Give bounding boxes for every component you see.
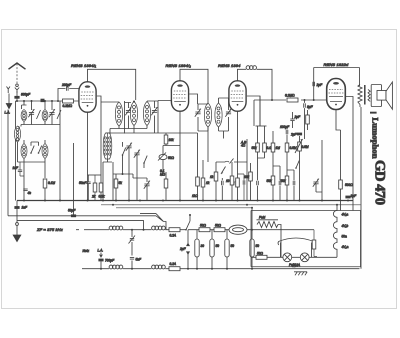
resistor 50 skala (251, 251, 268, 259)
resistor 10k osc (192, 133, 199, 201)
heater chain winding (333, 205, 337, 258)
capacitor 4nF (23, 189, 31, 195)
ground symbol (13, 201, 21, 242)
trimmer C9 (144, 181, 150, 189)
node L.A. 2 (98, 249, 104, 258)
coil L5 (42, 144, 48, 159)
svg-text:RENS 1894/₂: RENS 1894/₂ (166, 63, 192, 68)
wire (44, 162, 46, 178)
wire (316, 184, 322, 192)
cathode network V1 (88, 174, 102, 176)
switch S2b (143, 156, 147, 164)
coil IF2b (215, 103, 222, 127)
wire (202, 160, 204, 201)
power box top (251, 211, 361, 267)
switch S2a (122, 148, 126, 156)
wire (59, 101, 61, 201)
wire antenna lead-in dashed (16, 64, 18, 84)
wire (23, 162, 25, 201)
resistor 50a (199, 224, 210, 232)
wire V1 plate to filter (97, 96, 119, 130)
resistor 500ohm (339, 130, 354, 211)
svg-text:50Ω: 50Ω (168, 156, 175, 160)
wire (211, 230, 213, 269)
svg-text:Feld: Feld (259, 216, 265, 220)
wire (17, 130, 19, 133)
wire (189, 215, 191, 221)
wire filter1 tops (125, 101, 159, 108)
coil L4 (21, 144, 27, 159)
svg-text:2k: 2k (91, 195, 96, 199)
capacitor 50nF (79, 175, 91, 201)
wire V4 plate (346, 97, 353, 211)
wire (215, 162, 217, 172)
svg-text:0.1M: 0.1M (48, 181, 55, 185)
tube V3 RENS 1894 (229, 81, 246, 111)
trimmer C7 (126, 143, 132, 151)
capacitor 700pF (98, 259, 115, 269)
junction (271, 99, 273, 101)
heater resistor tube c (225, 239, 234, 257)
svg-text:50nF: 50nF (79, 181, 87, 185)
wire frame left (15, 101, 17, 201)
heater resistor tube d (250, 239, 259, 257)
dial frame posts (281, 243, 312, 258)
feedthrough cap (122, 173, 124, 175)
trimmer C5 (125, 107, 131, 115)
wire filter1 bottoms (106, 116, 158, 139)
trimmer C2 (49, 109, 55, 117)
loudspeaker (371, 82, 392, 109)
coil mains filter 4 (152, 265, 166, 269)
wire detector line y100 (254, 100, 326, 126)
wire grid to V2 (147, 101, 171, 134)
svg-text:4V₁a: 4V₁a (342, 213, 349, 217)
wire bus E (17, 221, 144, 230)
junction dots bus B (112, 204, 338, 206)
wire (259, 96, 261, 126)
coil mains filter 1 (109, 226, 123, 230)
wire (133, 174, 147, 201)
svg-text:50: 50 (216, 244, 220, 248)
wire osc block (103, 133, 144, 201)
capacitor (273, 166, 281, 201)
svg-text:1k: 1k (206, 181, 210, 185)
capacitor 2uF (313, 82, 323, 87)
svg-text:GD 470: GD 470 (372, 160, 388, 205)
capacitor cathode V3 (238, 174, 245, 201)
coil IF1c (143, 102, 150, 126)
resistor 0.2M (285, 94, 298, 103)
svg-text:0.2k: 0.2k (99, 195, 105, 199)
transformer core (364, 85, 366, 105)
junction dots bus A (23, 200, 323, 202)
junction (131, 229, 133, 231)
coil L1 (21, 110, 27, 122)
wire mid vertical x132 (131, 230, 133, 269)
svg-text:4V₁b: 4V₁b (342, 224, 349, 228)
junction dots on grid line (16, 100, 18, 102)
capacitor 200pF grid (58, 83, 80, 101)
fuse 0.2A (169, 228, 180, 238)
switch arrow 2 (57, 110, 61, 119)
resistor cathode V3 (231, 178, 239, 187)
wire switch column (187, 230, 189, 269)
junction (189, 214, 191, 216)
svg-text:50Ω: 50Ω (200, 224, 207, 228)
wire V1 cathode (87, 113, 89, 201)
svg-text:2µF: 2µF (290, 133, 298, 137)
resistor 1k a (201, 178, 210, 187)
trimmer C6 (151, 107, 157, 115)
capacitor (287, 170, 295, 201)
svg-text:800pF: 800pF (21, 93, 31, 97)
svg-text:50µF: 50µF (68, 209, 76, 213)
potentiometer 0.5M volume (295, 139, 309, 153)
tube V2 RENS 1894/2 (171, 81, 188, 111)
switch arrow (37, 110, 41, 119)
trimmer C11 (225, 109, 231, 117)
capacitor 1nF (13, 162, 25, 176)
wire lamp row (268, 256, 337, 258)
wire bus D (8, 214, 166, 230)
coil mains filter 2 (152, 226, 166, 230)
resistor 50k (244, 163, 252, 201)
switch S3 (225, 159, 234, 164)
transformer secondary (368, 90, 370, 102)
wire (196, 230, 198, 269)
wire top row feed (256, 125, 267, 127)
coil mains filter 3 (109, 265, 123, 269)
svg-text:50k: 50k (267, 179, 273, 183)
wire (21, 101, 27, 125)
wire (115, 174, 117, 201)
wire (73, 143, 75, 216)
wire (163, 144, 180, 176)
svg-text:0.5M: 0.5M (290, 146, 297, 150)
coil OSC double (103, 133, 112, 159)
mains line B bottom (82, 268, 360, 270)
wire V4 grid feed (314, 68, 360, 101)
resistor 0.1M (43, 179, 55, 188)
resistor 1k (210, 172, 218, 181)
wire (51, 101, 53, 125)
wire coil row bottom (21, 125, 60, 127)
svg-text:0.2A: 0.2A (170, 262, 177, 266)
fuse 0.2A b (169, 262, 180, 271)
coil HF choke (246, 66, 256, 70)
junction (100, 268, 102, 270)
switch S1b (38, 146, 42, 154)
wire V3 top with choke (238, 69, 247, 80)
svg-text:50k: 50k (281, 179, 287, 183)
wire (231, 185, 233, 201)
mains line A (76, 229, 186, 231)
resistor 0.2M grid leak (63, 99, 74, 108)
svg-text:2µF: 2µF (350, 194, 358, 198)
tube V4 RENS 1822d (327, 79, 346, 110)
wire V3 cathode (237, 112, 239, 201)
dial scale arc (278, 238, 314, 245)
coil IF1a (115, 102, 122, 126)
svg-text:50Ω: 50Ω (215, 224, 222, 228)
junction (133, 101, 135, 103)
svg-text:L.A.: L.A. (98, 249, 104, 253)
capacitor 5nF a (129, 236, 136, 244)
antenna terminal A2 (16, 84, 19, 87)
capacitor 2uF det (290, 133, 302, 137)
svg-text:10k: 10k (244, 175, 250, 179)
wire bus B (101, 204, 361, 206)
wire coil block interconnect (18, 140, 46, 162)
svg-text:0.5M: 0.5M (302, 145, 309, 149)
heater resistor tube a (195, 239, 204, 257)
svg-text:50: 50 (256, 244, 260, 248)
capacitor padding on line (41, 99, 45, 102)
capacitor 8uF (304, 100, 314, 139)
wire left mains lead (7, 110, 9, 216)
wire (31, 101, 33, 125)
antenna (9, 63, 26, 69)
svg-text:2µF: 2µF (316, 83, 324, 87)
wire V4 cathode (336, 110, 341, 131)
svg-text:10: 10 (226, 179, 230, 183)
potentiometer 50 ohm (158, 153, 175, 161)
wire (44, 101, 46, 125)
AVC arrow (221, 167, 226, 175)
wire heater line y230 (188, 229, 314, 231)
coil L3 antenna tall (14, 126, 20, 142)
trimmer C8 (134, 150, 140, 158)
resistor 2k (91, 175, 97, 201)
wire (278, 225, 281, 258)
antenna terminal A1 (7, 87, 11, 94)
wire (251, 230, 253, 269)
wire output down (360, 105, 361, 269)
wire (299, 136, 301, 201)
capacitor 2uF coupling (290, 112, 301, 128)
junction (251, 229, 253, 231)
terminal bar (370, 112, 377, 114)
resistor 100 (99, 130, 105, 201)
wire right block (321, 140, 323, 201)
junction (143, 229, 145, 231)
svg-text:500Ω: 500Ω (345, 183, 353, 187)
tube V1 RENS 1894/1 (79, 82, 96, 112)
switch mains (185, 221, 190, 231)
svg-text:RENS 1894: RENS 1894 (218, 63, 241, 68)
switch S4 (295, 161, 299, 169)
svg-text:RENS 1894/₁: RENS 1894/₁ (71, 63, 97, 68)
wire antenna column (16, 91, 18, 101)
capacitor 2uF block (179, 244, 189, 255)
svg-text:RENS 1822d: RENS 1822d (324, 62, 349, 67)
trimmer C1 (28, 109, 34, 117)
resistor (258, 126, 274, 158)
svg-text:1M: 1M (276, 146, 281, 150)
capacitor 50uF (68, 209, 76, 218)
wire earth lead with arrow (8, 94, 10, 104)
svg-text:2µF: 2µF (179, 247, 187, 251)
capacitor 100pF (280, 125, 290, 139)
svg-text:2µF: 2µF (294, 115, 302, 119)
junction (304, 99, 306, 101)
svg-text:4V₂a: 4V₂a (342, 245, 349, 249)
svg-text:4n: 4n (28, 191, 32, 195)
transformer T1 primary (358, 85, 362, 105)
wire (251, 208, 253, 230)
wire (246, 139, 248, 201)
svg-text:100pF: 100pF (280, 125, 290, 129)
resistor (285, 139, 297, 158)
chassis ground (294, 272, 307, 276)
resistor 0.1M AF (160, 169, 168, 188)
trimmer C t (313, 179, 319, 187)
svg-text:Netz: Netz (83, 249, 90, 253)
wire V2 plate (189, 94, 197, 104)
wire bus A ground (17, 200, 353, 202)
wire V1 anode top (88, 69, 136, 100)
svg-text:30: 30 (201, 244, 205, 248)
svg-text:0.2A: 0.2A (170, 234, 177, 238)
svg-text:ZF = 375 kHz: ZF = 375 kHz (36, 227, 63, 232)
svg-text:0.2MΩ: 0.2MΩ (63, 104, 73, 108)
wire filter2 (198, 98, 229, 139)
wire V3 plate (247, 96, 260, 126)
junction 2uF (345, 194, 357, 202)
capacitor 1nF (14, 206, 28, 210)
heater resistor tube b (210, 239, 219, 257)
junction (313, 99, 315, 101)
wire (44, 188, 46, 201)
wire (124, 101, 126, 133)
trimmer C10 (195, 109, 201, 117)
coil IF1b (130, 102, 137, 126)
wire (257, 69, 272, 100)
resistor 10k tap (164, 133, 174, 144)
svg-text:200pF: 200pF (61, 83, 72, 87)
svg-text:Pr(b)2A: Pr(b)2A (289, 263, 300, 267)
svg-text:1k: 1k (210, 175, 214, 179)
wire (207, 127, 209, 160)
resistor 50b (214, 224, 225, 232)
resistor (252, 126, 260, 158)
dial lamp 1 (283, 253, 292, 262)
resistor (226, 176, 234, 185)
capacitor (222, 178, 224, 201)
coil IF2a (204, 103, 211, 127)
svg-text:50k: 50k (252, 146, 258, 150)
capacitor 800pF (14, 93, 31, 99)
junction (251, 207, 253, 209)
dial lamp 2 (300, 253, 309, 262)
switch S1a (30, 146, 34, 154)
svg-text:700pF: 700pF (105, 259, 115, 263)
wire (208, 160, 247, 162)
wire (158, 132, 198, 134)
svg-text:50a: 50a (342, 235, 348, 239)
svg-text:50Ω: 50Ω (257, 251, 264, 255)
wire grid line y101 (16, 100, 79, 102)
capacitor (257, 158, 259, 201)
coil L2 (42, 110, 48, 122)
wire V2 cathode (179, 112, 181, 201)
wire (231, 162, 233, 176)
capacitor 5nF b (130, 258, 142, 262)
resistor (281, 158, 289, 201)
terminal circle (17, 127, 20, 130)
resistor (271, 131, 280, 166)
svg-text:0.2MΩ: 0.2MΩ (285, 94, 295, 98)
wire (215, 181, 217, 201)
wire bus C (116, 207, 252, 209)
svg-text:10k: 10k (169, 138, 175, 142)
field coil zigzag (257, 220, 279, 228)
urdox resistor (229, 225, 247, 234)
resistor aux (312, 230, 317, 257)
svg-text:5k: 5k (119, 181, 123, 185)
resistor grid (306, 110, 310, 130)
resistor (267, 166, 275, 201)
wire (165, 172, 167, 201)
wire V2 top (180, 69, 208, 103)
wire (226, 230, 228, 269)
svg-text:1kΩ: 1kΩ (192, 194, 198, 198)
resistor 5k (114, 179, 122, 188)
svg-text:50: 50 (231, 244, 235, 248)
svg-text:L.A.: L.A. (5, 111, 11, 115)
svg-text:Lumophon: Lumophon (371, 118, 381, 159)
